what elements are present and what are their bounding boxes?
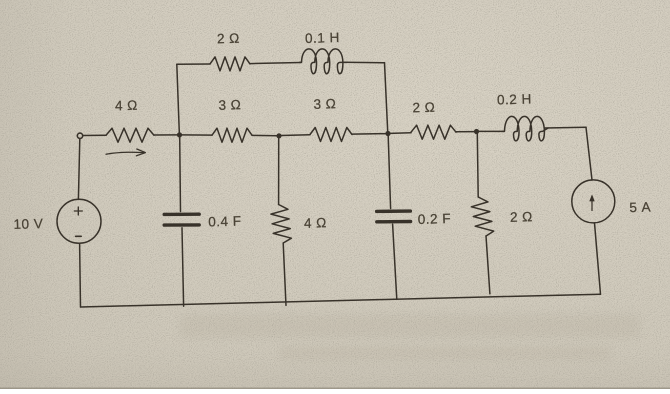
wire: 0.2H to top-right corner <box>545 126 586 129</box>
wire: top branch down to node C <box>385 63 388 132</box>
wire: node D to 0.2H inductor <box>479 130 505 132</box>
5A arrow (up) <box>591 200 593 211</box>
svg-text:4 Ω: 4 Ω <box>304 215 327 231</box>
10V minus sign <box>76 235 82 237</box>
wire: below 5A source to bottom-right corner <box>595 223 601 294</box>
node: left top corner (open dot) <box>77 133 82 138</box>
wire: 0.2F capacitor down to bottom wire <box>393 224 397 299</box>
wire: 4ohm to node A <box>154 134 178 136</box>
wire: 3ohm to node B <box>252 134 277 136</box>
svg-text:2 Ω: 2 Ω <box>510 209 533 225</box>
resistor 2ohm (shunt, vertical) <box>471 197 494 236</box>
node C junction dot <box>385 131 390 136</box>
voltage source 10V (circle) <box>57 199 101 243</box>
svg-text:0.4 F: 0.4 F <box>208 214 242 230</box>
inductor 0.2H <box>503 116 549 140</box>
wire: bottom-left corner up to 10V source <box>79 243 82 307</box>
resistor 4ohm (shunt, vertical) <box>271 205 292 244</box>
inductor 0.1H <box>300 49 347 74</box>
resistor 2ohm (top branch) <box>210 57 250 71</box>
wire: node A to 3ohm first <box>182 134 213 136</box>
wire: 0.4F capacitor down to bottom wire <box>182 228 184 306</box>
wire: 0.1H to top-right corner of top branch <box>344 61 385 64</box>
wire: 10V source up to left node <box>78 139 79 199</box>
node A junction dot <box>177 132 182 137</box>
wire: 2ohm top to 0.1H inductor <box>250 63 301 64</box>
svg-text:10 V: 10 V <box>13 216 43 232</box>
svg-text:2 Ω: 2 Ω <box>412 100 435 116</box>
node D junction dot <box>474 129 479 134</box>
svg-text:2 Ω: 2 Ω <box>217 31 240 47</box>
wire: left node to 4ohm resistor <box>83 134 106 136</box>
svg-text:4 Ω: 4 Ω <box>115 98 138 114</box>
wire: node A down to 0.4F capacitor <box>179 137 182 212</box>
svg-text:0.2 F: 0.2 F <box>418 211 452 227</box>
svg-text:0.1 H: 0.1 H <box>305 30 340 46</box>
10V plus sign <box>74 207 82 215</box>
wire: node A up to top branch <box>177 64 180 132</box>
capacitor 0.4F plates <box>164 212 199 216</box>
svg-text:0.2 H: 0.2 H <box>497 92 532 108</box>
wire: 2ohm shunt down to bottom wire <box>486 236 490 294</box>
faint show-through smudges below circuit <box>180 55 640 360</box>
resistor 4ohm (series, main line) <box>106 128 154 142</box>
node B junction dot <box>276 133 281 138</box>
wire: 4ohm shunt down to bottom wire <box>283 243 286 305</box>
wire: top-left corner to 2ohm top <box>177 63 210 65</box>
wire: node C down to 0.2F capacitor <box>388 136 390 209</box>
wire: right vertical down to 5A source <box>586 127 592 180</box>
wire: node B to second 3ohm <box>281 134 310 137</box>
capacitor 0.2F plates <box>377 209 411 213</box>
resistor 3ohm (second series, main line) <box>310 128 352 142</box>
current direction arrow under series 4ohm <box>106 152 144 154</box>
wire: node C to 2ohm series <box>390 132 411 135</box>
wire: node D down to 2ohm shunt resistor <box>476 134 479 197</box>
svg-text:3 Ω: 3 Ω <box>313 96 336 112</box>
resistor 2ohm (series, main line right) <box>411 125 456 139</box>
svg-text:5 A: 5 A <box>629 199 652 215</box>
svg-text:3 Ω: 3 Ω <box>218 97 241 113</box>
resistor 3ohm (first series, main line) <box>212 128 252 142</box>
wire: 2ohm to node D <box>456 131 475 133</box>
wire: node B down to 4ohm shunt resistor <box>278 138 280 205</box>
bottom edge shadow line <box>0 388 670 390</box>
current source 5A (circle) <box>572 180 615 223</box>
wire: second 3ohm to node C <box>352 133 386 136</box>
bottom wire (ground return) <box>81 294 601 307</box>
